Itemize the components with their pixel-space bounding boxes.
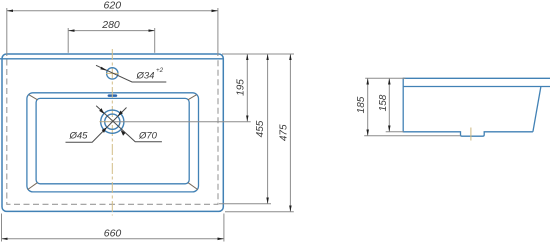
svg-text:280: 280: [101, 19, 120, 31]
overflow slot: [108, 94, 118, 97]
side view top extension line: [365, 77, 405, 79]
svg-text:475: 475: [279, 124, 290, 141]
basin corner chamfer line top-right: [188, 95, 197, 100]
svg-text:Ø70: Ø70: [138, 131, 158, 142]
dimension 660 extension line left: [1, 214, 3, 242]
svg-text:Ø34: Ø34: [136, 71, 155, 82]
dimension 455 line: [267, 54, 269, 204]
Ø70 arrowhead NW: [99, 108, 104, 114]
faucet leader arrowhead: [100, 67, 107, 71]
dimension 158 line: [388, 78, 390, 132]
dimension 475 line: [289, 54, 291, 212]
right side top extension line: [222, 53, 294, 55]
Ø45 arrowhead SW: [102, 127, 107, 133]
svg-text:455: 455: [255, 120, 266, 137]
side view bottom with drain boss: [403, 132, 533, 136]
faucet hole horizontal centerline tick: [106, 72, 119, 74]
side view rim underside line: [403, 86, 550, 88]
basin inner rounded rectangle: [36, 98, 189, 183]
svg-text:185: 185: [356, 96, 367, 113]
plan view: rim back inner edge line: [0, 58, 223, 60]
hidden (dashed) under-body outline: [7, 60, 218, 205]
drain horizontal centerline tick: [100, 121, 111, 123]
dimension 280 extension line right: [154, 28, 156, 53]
drain boss centerline: [470, 128, 472, 141]
dimension 158 bottom extension line: [386, 131, 404, 133]
svg-text:+2: +2: [156, 67, 164, 74]
side view rim top line: [403, 77, 550, 79]
svg-text:158: 158: [378, 94, 389, 111]
dimension 280 line: [68, 30, 155, 32]
vertical centerline of sink: [111, 49, 113, 216]
basin corner chamfer line bottom-right: [188, 183, 198, 190]
side view right slanted wall: [533, 87, 541, 132]
basin outer rounded rectangle: [27, 93, 199, 192]
dimension 660 line: [2, 238, 224, 240]
dimension 185 bottom extension line: [364, 135, 460, 137]
plan view: outer rim rounded rectangle: [2, 54, 223, 211]
svg-text:Ø45: Ø45: [69, 131, 89, 142]
basin corner chamfer line bottom-left: [28, 183, 38, 190]
dimension 185 line: [367, 78, 369, 136]
Ø70 arrowhead SE: [121, 130, 126, 136]
svg-text:195: 195: [235, 79, 246, 96]
faucet hole circle: [107, 68, 118, 79]
basin corner chamfer line top-left: [29, 95, 38, 100]
dimension 195 line: [246, 54, 248, 122]
svg-text:620: 620: [104, 0, 122, 11]
drain hole inner circle Ø45: [105, 114, 120, 129]
Ø45 arrowhead NE: [118, 111, 123, 117]
dimension 475 bottom extension line: [225, 211, 294, 213]
dimension 620 extension line right: [217, 8, 219, 56]
dimension 620 line: [7, 10, 218, 12]
faucet leader line: [96, 65, 166, 82]
dimension 660 extension line right: [223, 214, 225, 242]
leader line Ø45 (NE-SW diagonal): [66, 108, 127, 143]
dimension 620 extension line left: [6, 8, 8, 56]
dimension 455 bottom extension line: [219, 203, 271, 205]
drain hole outer circle Ø70: [101, 110, 124, 133]
side view left wall: [402, 78, 404, 133]
drain centerline extension to 195 dimension: [110, 121, 251, 123]
dimension 280 extension line left: [67, 28, 69, 53]
svg-text:660: 660: [104, 227, 122, 239]
leader line Ø70 (NW-SE diagonal): [96, 106, 162, 142]
